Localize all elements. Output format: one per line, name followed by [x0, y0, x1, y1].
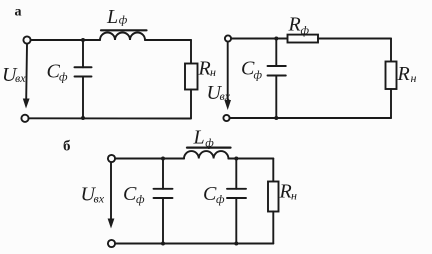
svg-text:ф: ф	[216, 192, 225, 206]
svg-text:R: R	[397, 63, 410, 85]
svg-text:ф: ф	[205, 136, 214, 150]
svg-text:ф: ф	[119, 13, 128, 27]
svg-text:н: н	[210, 65, 216, 79]
svg-text:вх: вх	[15, 71, 26, 85]
svg-text:R: R	[288, 14, 301, 36]
svg-text:ф: ф	[136, 192, 145, 206]
svg-text:R: R	[198, 58, 211, 80]
svg-text:C: C	[203, 183, 217, 205]
svg-text:ф: ф	[59, 70, 68, 84]
svg-text:ф: ф	[301, 23, 310, 37]
svg-text:б: б	[63, 139, 71, 155]
svg-text:вх: вх	[220, 89, 231, 103]
svg-text:ф: ф	[254, 68, 263, 82]
svg-text:C: C	[123, 183, 137, 205]
svg-text:R: R	[279, 181, 292, 203]
svg-text:L: L	[106, 6, 118, 28]
svg-text:н: н	[411, 71, 417, 85]
svg-text:L: L	[193, 127, 205, 149]
svg-text:вх: вх	[94, 192, 105, 206]
svg-text:н: н	[291, 189, 297, 203]
svg-text:а: а	[15, 5, 22, 20]
